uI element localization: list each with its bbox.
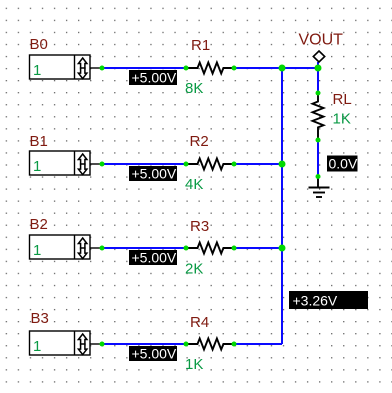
svg-text:4K: 4K [185, 176, 203, 193]
wire R4 to bus [234, 343, 282, 345]
wire B2 to R3 [102, 247, 186, 249]
resistor R1 [186, 63, 234, 74]
node R2 left [184, 162, 189, 167]
node R1 right [232, 66, 237, 71]
ground [309, 177, 330, 198]
svg-text:R4: R4 [190, 314, 209, 331]
voltage label +5.00V row3 [129, 249, 177, 265]
logic state B0 [30, 55, 103, 79]
node B2 out [100, 246, 105, 251]
svg-text:1: 1 [33, 338, 41, 355]
node R3 right [232, 246, 237, 251]
voltage label +3.26V [289, 291, 368, 309]
voltage label 0.0V [327, 155, 358, 171]
wire RL to ground [317, 140, 319, 177]
svg-text:+3.26V: +3.26V [293, 293, 338, 309]
svg-text:VOUT: VOUT [299, 32, 344, 49]
svg-text:B2: B2 [30, 216, 48, 233]
node B3 out [100, 342, 105, 347]
node RL top [316, 91, 321, 96]
wire bus vertical [281, 68, 283, 344]
node bus row2 [279, 161, 286, 168]
wire R2 to bus [234, 163, 282, 165]
svg-text:2K: 2K [185, 261, 203, 278]
svg-text:1K: 1K [185, 356, 203, 373]
logic state B1 [30, 151, 103, 175]
voltage label +5.00V row4 [129, 345, 177, 361]
resistor R4 [186, 339, 234, 350]
logic state B3 [30, 331, 103, 355]
node RL bottom [316, 138, 321, 143]
wire B0 to R1 [102, 67, 186, 69]
wire R3 to bus [234, 247, 282, 249]
svg-text:R1: R1 [191, 37, 210, 54]
node R3 left [184, 246, 189, 251]
resistor R3 [186, 243, 234, 254]
svg-text:8K: 8K [185, 80, 203, 97]
node bus row1 [279, 65, 286, 72]
node R4 right [232, 342, 237, 347]
svg-text:B0: B0 [30, 36, 48, 53]
node R1 left [184, 66, 189, 71]
voltage label +5.00V row2 [129, 165, 177, 181]
node ground [316, 174, 321, 179]
resistor RL vertical [313, 93, 324, 140]
svg-text:RL: RL [333, 91, 352, 108]
svg-text:B3: B3 [31, 310, 49, 327]
wire node to RL [317, 68, 319, 93]
node R4 left [184, 342, 189, 347]
svg-text:B1: B1 [30, 133, 48, 150]
wire R1 to VOUT node [234, 67, 318, 69]
logic state B2 [30, 235, 103, 259]
node bus row3 [279, 245, 286, 252]
node R2 right [232, 162, 237, 167]
node B0 out [100, 66, 105, 71]
probe diamond VOUT [313, 51, 324, 62]
svg-text:R2: R2 [190, 133, 209, 150]
svg-text:1: 1 [33, 158, 41, 175]
wire B3 to R4 [102, 343, 186, 345]
svg-text:1: 1 [33, 62, 41, 79]
voltage label +5.00V row1 [129, 69, 177, 85]
resistor R2 [186, 159, 234, 170]
svg-text:1: 1 [33, 242, 41, 259]
svg-text:1K: 1K [333, 111, 351, 128]
wire B1 to R2 [102, 163, 186, 165]
svg-text:R3: R3 [190, 218, 209, 235]
wire VOUT stub [317, 62, 319, 68]
node B1 out [100, 162, 105, 167]
svg-text:0.0V: 0.0V [329, 155, 358, 171]
node VOUT junction [315, 65, 322, 72]
